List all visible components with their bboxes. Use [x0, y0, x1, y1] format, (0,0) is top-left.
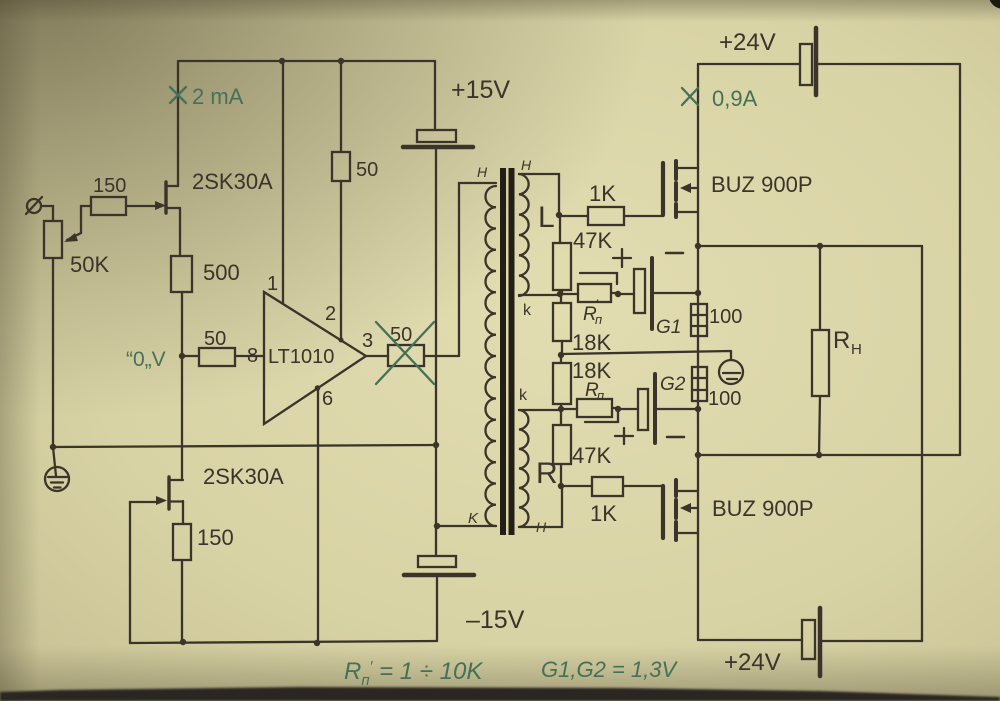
transformer T1 primary winding [485, 186, 496, 526]
label 18K lower [572, 358, 611, 383]
node junction top rail pin2 [338, 58, 344, 64]
resistor 150 bottom [173, 524, 191, 560]
wire 1K to gate M1 [624, 215, 663, 217]
label 18K upper [572, 330, 611, 355]
pin 1 label [267, 273, 278, 295]
label G2 [660, 374, 686, 395]
label +24V top [719, 29, 776, 56]
svg-text:BUZ 900P: BUZ 900P [712, 496, 814, 521]
wire pin 1 to rail [282, 61, 284, 304]
svg-text:G2: G2 [660, 374, 686, 395]
svg-text:100: 100 [708, 388, 741, 410]
wire output rail lower [698, 454, 960, 456]
pin 6 label [322, 388, 333, 410]
wire input to potentiometer [41, 206, 53, 221]
label H primary top [477, 164, 488, 180]
ground earth symbol [45, 447, 69, 491]
svg-text:1K: 1K [590, 501, 617, 526]
wire gate R node to 1K [561, 485, 592, 487]
svg-text:2 mA: 2 mA [192, 84, 244, 109]
resistor 1K upper [588, 207, 624, 225]
svg-text:+24V: +24V [719, 29, 776, 56]
wire -15V to bottom rail [436, 578, 438, 641]
svg-text:п: п [597, 388, 604, 403]
label R winding [536, 457, 558, 490]
node G1 cap junction [695, 290, 701, 296]
svg-text:8: 8 [247, 345, 258, 367]
svg-text:k: k [519, 387, 528, 404]
wire gate node to 1K [559, 215, 588, 217]
wire junction down to K node [435, 445, 437, 556]
svg-text:G1: G1 [656, 317, 681, 338]
svg-text:′: ′ [598, 372, 601, 388]
battery +24V top [800, 28, 816, 95]
node junction bottom rail pin6 [314, 640, 320, 646]
wire output rail upper [698, 245, 922, 247]
svg-text:0,9A: 0,9A [712, 86, 758, 111]
pin 2 label [325, 303, 336, 325]
node RH top junction [817, 243, 823, 249]
svg-text:47K: 47K [573, 228, 612, 253]
svg-text:BUZ 900P: BUZ 900P [711, 172, 813, 197]
wire +15V down to mid rail junction [435, 149, 437, 445]
capacitor +15V supply [403, 130, 473, 147]
label 2SK30A [192, 169, 273, 194]
label LT1010 [268, 346, 334, 368]
wire 18K upper leads [561, 294, 562, 354]
label plus G1 [613, 249, 631, 267]
label 47K upper [573, 228, 612, 253]
label minus G2 [667, 436, 684, 439]
svg-text:′: ′ [596, 296, 599, 312]
label R'p upper [583, 296, 602, 327]
wire pin 6 to bottom rail [315, 385, 321, 643]
label +24V bottom [724, 649, 781, 676]
wire secondary L top to gate node [519, 174, 559, 215]
input terminal phi [26, 197, 42, 214]
svg-text:–15V: –15V [466, 606, 525, 634]
svg-text:50: 50 [356, 159, 378, 181]
resistor 50 (top middle) [332, 152, 350, 181]
node drain M2 junction [695, 452, 701, 458]
wire rail to +15V supply [434, 61, 436, 130]
node 0V junction [179, 353, 185, 359]
wire main right vertical [697, 64, 699, 640]
svg-text:H: H [851, 341, 862, 358]
wire M1 drain to battery top [698, 63, 800, 65]
label 100 upper [709, 306, 742, 328]
label 2mA (green) [192, 84, 244, 109]
svg-text:R: R [833, 327, 850, 354]
transformer T1 secondary L winding [519, 174, 529, 296]
wire bottom rail [130, 641, 437, 643]
resistor 18K lower [553, 363, 571, 404]
annotation cross 2mA (green) [170, 87, 186, 103]
svg-text:50K: 50K [70, 252, 109, 277]
node RH bottom junction [816, 452, 822, 458]
svg-text:3: 3 [362, 330, 373, 352]
label 0,9A (green) [712, 86, 758, 111]
label BUZ900P bottom [712, 496, 814, 521]
wire right outer rail [959, 64, 961, 455]
resistor 1K lower [592, 477, 623, 496]
svg-text:K: K [468, 510, 479, 527]
wire primary bottom to K node [437, 525, 496, 527]
transistor Q1 2SK30A [166, 182, 180, 213]
wire 500 down through mid rail to drain Q2 [181, 292, 183, 480]
svg-text:1K: 1K [589, 181, 616, 206]
label RH [833, 327, 862, 358]
wire output pin 3 [366, 355, 388, 357]
node source M1 junction [695, 243, 701, 249]
node center tap junction [558, 352, 564, 358]
wire drain Q1 to rail [177, 61, 179, 186]
resistor RH load [812, 246, 829, 455]
node G2 cap junction [695, 406, 701, 412]
label plus G2 [615, 428, 633, 444]
transistor Q2 2SK30A [169, 477, 183, 509]
wire source Q2 to resistor 150 [182, 501, 184, 524]
wire mid rail [53, 445, 436, 447]
svg-text:100: 100 [709, 306, 742, 328]
svg-text:R: R [536, 457, 558, 490]
svg-text:L: L [538, 201, 555, 234]
svg-text:150: 150 [197, 525, 234, 550]
resistor 150 (top) [91, 197, 126, 215]
resistor 500 [171, 256, 192, 292]
note G1 G2 value (green) [541, 657, 678, 682]
capacitor -15V supply [404, 556, 474, 575]
svg-text:18K: 18K [572, 330, 611, 355]
wire source Q1 to resistor 500 [179, 208, 181, 256]
potentiometer R 50K [44, 206, 91, 258]
trimmer R'p upper [560, 273, 618, 302]
transistor M2 BUZ900P [663, 480, 698, 540]
chassis earth symbol (circle) [719, 360, 743, 384]
resistor 50 output (crossed out) [388, 345, 424, 366]
svg-text:50: 50 [204, 328, 226, 350]
label 50 top [356, 159, 378, 181]
svg-text:50: 50 [390, 324, 412, 346]
label R'p lower [585, 372, 604, 403]
svg-text:47K: 47K [572, 443, 611, 468]
wire secondary R bottom to gate node [519, 486, 562, 527]
svg-text:1: 1 [267, 273, 278, 295]
wire gate Q2 [130, 496, 167, 643]
node junction bottom rail Q2 [180, 639, 186, 645]
label 50 input [204, 328, 226, 350]
label H secondary R bottom [536, 519, 547, 535]
wire secondary R top to divider [519, 409, 561, 411]
label BUZ900P top [711, 172, 813, 197]
wire center tap to chassis earth [561, 351, 731, 360]
wire battery top to right rail [818, 63, 960, 65]
wire resistor 50 to pin 8 [235, 355, 264, 357]
resistor 47K lower [553, 425, 571, 464]
label 1K upper [589, 181, 616, 206]
label 50 output [390, 324, 412, 346]
label 100 lower [708, 388, 741, 410]
wire 47K upper leads [560, 215, 562, 294]
op-amp U1 LT1010 [264, 292, 366, 424]
node junction output net [433, 442, 439, 448]
wire 47K lower leads [560, 409, 562, 486]
wire output to transformer riser [424, 355, 459, 357]
wire M2 source to battery bottom [698, 639, 802, 641]
trimmer R'p lower [561, 399, 618, 422]
resistor 18K upper [553, 303, 571, 341]
label 500 [203, 260, 240, 285]
wire right inner rail [921, 246, 923, 641]
wire battery bottom to inner rail [822, 640, 922, 642]
transformer T1 core [500, 168, 515, 535]
capacitor G1 electrolytic [618, 258, 698, 329]
svg-text:LT1010: LT1010 [268, 346, 334, 368]
label k secondary L bottom [523, 302, 532, 319]
resistor 100 lower [692, 367, 707, 401]
annotation cross 0.9A (green) [682, 88, 698, 105]
resistor 100 upper [691, 304, 707, 336]
pin 8 label [247, 345, 258, 367]
label minus G1 [666, 252, 683, 255]
node trimmer lower junction [615, 406, 621, 412]
label K primary bottom [468, 510, 479, 527]
svg-text:+15V: +15V [451, 76, 510, 104]
svg-text:500: 500 [203, 260, 240, 285]
node divider L junction [557, 291, 563, 297]
wire gate Q1 [126, 201, 166, 210]
wire pin 2 to resistor 50 top [339, 61, 344, 343]
label k secondary R top [519, 387, 528, 404]
svg-text:G1,G2 = 1,3V: G1,G2 = 1,3V [541, 657, 678, 682]
label L winding [538, 201, 555, 234]
label 150 bottom [197, 525, 234, 550]
svg-text:2SK30A: 2SK30A [203, 464, 284, 489]
note R'p value (green) [344, 658, 483, 689]
wire top supply rail [179, 60, 435, 62]
label 2SK30A bottom [203, 464, 284, 489]
label 1K lower [590, 501, 617, 526]
capacitor G2 electrolytic [618, 374, 697, 443]
resistor 47K upper [553, 243, 571, 290]
resistor 50 op-amp input [199, 348, 235, 366]
transformer T1 secondary R winding [519, 410, 528, 527]
pin 3 label [362, 330, 373, 352]
wire output riser to primary top [459, 183, 496, 356]
svg-text:150: 150 [93, 175, 126, 197]
svg-text:2SK30A: 2SK30A [192, 169, 273, 194]
label 47K lower [572, 443, 611, 468]
svg-text:6: 6 [322, 388, 333, 410]
wire 150 to bottom rail [181, 560, 183, 642]
label 150 [93, 175, 126, 197]
wire 1K to gate M2 [623, 485, 663, 487]
node K junction [434, 523, 440, 529]
svg-text:“0„V: “0„V [126, 348, 166, 371]
wire secondary L bottom to divider [519, 294, 560, 296]
transistor M1 BUZ900P [663, 161, 698, 217]
wire 18K lower leads [560, 355, 562, 409]
label 0V (green) [126, 348, 166, 371]
wire 0V node to resistor 50 [182, 355, 199, 357]
node junction pot / ground [50, 444, 56, 450]
node gate L junction [556, 212, 562, 218]
label H secondary L top [521, 157, 532, 173]
svg-text:+24V: +24V [724, 649, 781, 676]
node junction top rail pin1 [279, 58, 285, 64]
svg-text:H: H [477, 164, 488, 180]
svg-text:п: п [595, 312, 602, 327]
label G1 [656, 317, 681, 338]
label -15V [466, 606, 525, 634]
node divider R junction [558, 406, 564, 412]
svg-text:2: 2 [325, 303, 336, 325]
label 50K [70, 252, 109, 277]
svg-text:H: H [521, 157, 532, 173]
annotation cross-out X (green) [376, 322, 434, 384]
svg-text:k: k [523, 302, 532, 319]
wire pot bottom to mid rail [52, 258, 54, 447]
node trimmer upper junction [615, 291, 621, 297]
label +15V [451, 76, 510, 104]
battery +24V bottom [802, 608, 820, 676]
node gate R junction [558, 483, 564, 489]
